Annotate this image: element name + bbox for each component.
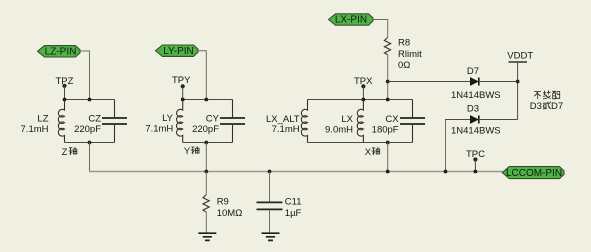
wire C11 to ground <box>269 210 271 233</box>
label Z axis <box>62 147 77 158</box>
junction X top TPX <box>362 98 366 102</box>
ground under C11 <box>262 233 280 240</box>
svg-text:7.1mH: 7.1mH <box>145 124 173 135</box>
svg-text:TPY: TPY <box>172 75 191 86</box>
wire D7 anode from R8 node <box>388 81 471 83</box>
test point TPY <box>172 75 191 88</box>
svg-text:0Ω: 0Ω <box>398 60 410 71</box>
inductor LX 9.0mH <box>325 100 363 143</box>
ground under R9 <box>198 233 216 240</box>
junction bus D3 <box>444 170 448 174</box>
inductor LX_ALT 7.1mH <box>266 100 308 143</box>
svg-text:7.1mH: 7.1mH <box>21 124 49 135</box>
label X axis <box>365 147 380 158</box>
wire LZ-PIN to Z tank <box>80 51 90 100</box>
resistor R9 10Mohm <box>203 172 242 219</box>
junction Y bottom <box>204 141 208 145</box>
net flag LX-PIN <box>329 14 374 26</box>
svg-text:CY: CY <box>206 114 220 125</box>
svg-text:LX: LX <box>341 114 353 125</box>
junction bus R9 <box>204 170 208 174</box>
diode D7 1N414BWS <box>451 66 501 101</box>
svg-text:LY: LY <box>162 113 174 124</box>
svg-text:1µF: 1µF <box>285 208 302 219</box>
net flag LY-PIN <box>156 45 199 57</box>
svg-text:CX: CX <box>385 114 399 125</box>
svg-text:LCCOM-PIN: LCCOM-PIN <box>506 168 562 179</box>
svg-text:220pF: 220pF <box>74 124 101 135</box>
power symbol VDDT <box>507 51 533 62</box>
wire Y tank to LCCOM bus <box>205 143 207 172</box>
svg-text:CZ: CZ <box>88 114 101 125</box>
wire X tank top rail <box>308 99 413 101</box>
net flag LCCOM-PIN <box>502 167 564 179</box>
junction X bottom <box>386 141 390 145</box>
svg-text:Y: Y <box>184 146 191 157</box>
wire LCCOM bus <box>89 171 503 173</box>
wire Z tank top rail <box>65 99 115 101</box>
net flag LZ-PIN <box>38 46 81 58</box>
wire VDDT down to diodes <box>517 62 519 120</box>
svg-text:D3: D3 <box>467 104 479 115</box>
svg-text:D3: D3 <box>530 101 542 112</box>
junction bus TPC <box>474 170 478 174</box>
capacitor CZ 220pF <box>74 100 127 143</box>
wire Z tank to LCCOM bus <box>89 143 91 172</box>
inductor LY 7.1mH <box>145 100 182 143</box>
capacitor CX 180pF <box>372 100 425 143</box>
svg-text:Rlimit: Rlimit <box>398 49 422 60</box>
resistor R8 Rlimit 0 ohm <box>384 37 422 71</box>
svg-text:R9: R9 <box>217 196 229 207</box>
svg-text:1N414BWS: 1N414BWS <box>451 125 501 136</box>
svg-text:VDDT: VDDT <box>507 51 533 62</box>
label Y axis <box>184 146 199 157</box>
wire TPY down <box>182 86 184 99</box>
wire X tank bottom rail <box>308 142 413 144</box>
svg-text:220pF: 220pF <box>192 124 219 135</box>
svg-text:9.0mH: 9.0mH <box>325 125 353 136</box>
junction X top R8 <box>386 98 390 102</box>
junction Y top <box>204 98 208 102</box>
junction Z top-left TPZ <box>63 98 67 102</box>
wire LX-PIN to R8 <box>373 20 388 38</box>
test point TPX <box>354 76 373 88</box>
wire R8 to X tank <box>387 55 389 100</box>
svg-text:LZ: LZ <box>37 114 48 125</box>
test point TPZ <box>56 76 74 88</box>
junction Z top <box>88 98 92 102</box>
wire TPC down <box>474 160 476 172</box>
svg-text:LY-PIN: LY-PIN <box>163 46 194 57</box>
wire LY-PIN to Y tank <box>198 51 206 100</box>
svg-text:R8: R8 <box>398 38 410 49</box>
svg-text:7.1mH: 7.1mH <box>272 124 300 135</box>
capacitor CY 220pF <box>192 100 245 143</box>
wire X tank to LCCOM bus <box>387 143 389 172</box>
diode D3 1N414BWS <box>451 104 501 137</box>
svg-text:C11: C11 <box>285 196 302 207</box>
svg-text:D7: D7 <box>551 101 563 112</box>
inductor LZ 7.1mH <box>21 100 65 143</box>
wire D3 cathode to VDDT line <box>479 119 518 121</box>
svg-text:10MΩ: 10MΩ <box>217 208 243 219</box>
junction Y top-left TPY <box>181 98 185 102</box>
svg-text:Z: Z <box>62 147 68 158</box>
wire D3 anode from LCCOM bus <box>445 120 447 172</box>
wire TPX down <box>362 86 364 99</box>
svg-text:LX-PIN: LX-PIN <box>335 15 367 26</box>
junction VDDT/D7 <box>516 80 520 84</box>
wire R9 to ground <box>205 212 207 233</box>
svg-text:180pF: 180pF <box>372 125 399 136</box>
svg-text:D7: D7 <box>467 66 479 77</box>
junction bus C11 <box>268 170 272 174</box>
wire D7 cathode to VDDT <box>479 81 518 83</box>
capacitor C11 1uF <box>257 172 302 219</box>
svg-text:X: X <box>365 147 372 158</box>
svg-text:LZ-PIN: LZ-PIN <box>45 46 77 57</box>
wire Y tank bottom rail <box>183 142 233 144</box>
wire TPZ down <box>64 86 66 100</box>
wire Y tank top rail <box>183 99 233 101</box>
junction R8/D7 <box>386 80 390 84</box>
junction Z bottom <box>88 141 92 145</box>
test point TPC <box>466 149 485 162</box>
svg-text:1N414BWS: 1N414BWS <box>451 90 501 101</box>
wire Z tank bottom rail <box>65 142 115 144</box>
junction bus X tank <box>386 170 390 174</box>
note: do not populate D3 or D7 <box>530 90 563 112</box>
